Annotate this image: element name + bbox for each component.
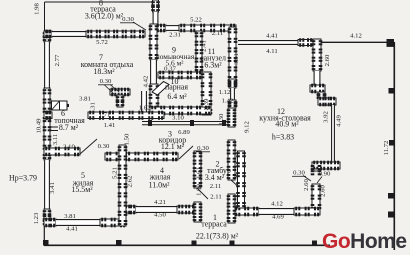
svg-text:3.92: 3.92 [323, 111, 330, 123]
svg-text:2.60: 2.60 [303, 178, 310, 190]
kitchen NE vertical wall 2.60 [312, 39, 323, 71]
pomyvochnaya west wall lower [151, 25, 160, 31]
svg-text:1.71: 1.71 [99, 112, 111, 119]
corridor north partition (thin) [142, 120, 228, 126]
rooms 5|4 divider wall [118, 145, 128, 226]
rooms 9/11 top wall left [153, 24, 167, 33]
kitchen NE step wall c [318, 97, 336, 107]
sanuzel east wall 3.51 [228, 27, 238, 82]
GoHome logo [322, 230, 407, 253]
terrace column b1 [43, 240, 49, 246]
kitchen north wall piece [298, 38, 313, 47]
svg-text:0.30: 0.30 [197, 145, 209, 152]
svg-text:1.50: 1.50 [124, 133, 131, 145]
leader 0.30 room7 [104, 85, 119, 95]
east long wall mid [227, 108, 237, 127]
svg-text:1.12: 1.12 [219, 89, 231, 96]
room 6 door swing [80, 139, 97, 154]
rooms 6|7 divider wall west piece [44, 111, 52, 120]
terrace right edge line [393, 42, 395, 250]
underline 0.30 kitchen [292, 175, 306, 177]
terrace column b3 [192, 241, 197, 246]
kitchen north window 4.41/4.11 [238, 40, 298, 45]
kitchen SW vertical wall upper [311, 165, 322, 175]
room 4 bottom wall west piece [119, 205, 136, 215]
room 7 top-left corner block [44, 30, 52, 39]
sanuzel east window [230, 88, 235, 100]
svg-text:2.10: 2.10 [63, 144, 75, 151]
svg-text:1.30: 1.30 [218, 113, 225, 125]
svg-text:8.7 м²: 8.7 м² [59, 123, 79, 132]
svg-text:1.23: 1.23 [33, 212, 40, 224]
svg-text:0.30: 0.30 [100, 78, 112, 85]
svg-text:2.60: 2.60 [324, 54, 331, 66]
svg-text:1.41: 1.41 [104, 122, 116, 129]
underline 0.30 top [120, 22, 135, 24]
svg-text:4.12: 4.12 [271, 201, 283, 208]
leader 0.90 kitchen door [317, 177, 322, 184]
svg-text:11.72: 11.72 [383, 141, 390, 156]
terrace column b4 [230, 241, 235, 246]
tambour west door swing [197, 188, 208, 199]
svg-text:4.12: 4.12 [350, 33, 362, 40]
terrace 8 corner column [153, 1, 160, 7]
kitchen south window 4.12/4.69 [259, 208, 294, 215]
room 4 bottom window 4.21/4.50 [136, 206, 177, 213]
svg-text:6.4 м²: 6.4 м² [167, 92, 187, 101]
room 5 bottom wall east piece [100, 218, 126, 228]
east long wall mid 2 [227, 140, 237, 180]
svg-text:3.6(12.0) м²: 3.6(12.0) м² [85, 11, 124, 20]
terrace corner column NE [387, 39, 395, 47]
pomyvochnaya west wall upper [151, 0, 160, 12]
corridor door swing [179, 146, 193, 159]
svg-text:4.11: 4.11 [266, 48, 277, 55]
svg-text:0.37: 0.37 [164, 65, 176, 72]
terrace column r3 [388, 193, 394, 199]
rooms 9|11 divider wall [195, 31, 204, 72]
room 7 top wall window [52, 31, 86, 37]
svg-text:2.39: 2.39 [203, 98, 210, 110]
svg-text:40.9 м²: 40.9 м² [275, 119, 299, 128]
svg-text:2.60: 2.60 [320, 184, 327, 196]
svg-text:11.0м²: 11.0м² [149, 180, 171, 189]
svg-text:терраса: терраса [201, 219, 227, 228]
parnaya north wall [158, 71, 202, 80]
svg-text:3.81: 3.81 [79, 96, 91, 103]
svg-text:1.61: 1.61 [196, 167, 203, 179]
svg-text:5.21: 5.21 [112, 167, 119, 179]
svg-text:3.51: 3.51 [233, 53, 240, 65]
room 7 right wall upper [149, 24, 159, 60]
rooms 9/11 top wall 5.22 [179, 24, 236, 33]
room 7 right wall window [150, 60, 157, 91]
kitchen SW vertical wall lower [311, 184, 322, 210]
svg-text:0.30: 0.30 [293, 170, 305, 177]
underline 0.30 corridor [196, 151, 210, 153]
terrace top-right edge line [321, 41, 394, 43]
svg-text:2.77: 2.77 [54, 54, 61, 66]
underline 0.30 room7 [98, 84, 113, 86]
rooms 6|7 divider wall east piece [88, 111, 164, 120]
kitchen west wall [236, 151, 246, 208]
svg-text:3.10: 3.10 [172, 115, 184, 122]
room 6 bottom wall [44, 147, 80, 157]
svg-text:12.1 м²: 12.1 м² [161, 142, 185, 151]
svg-text:2.41: 2.41 [201, 40, 208, 52]
rooms 9/11 top wall window [166, 25, 179, 31]
corridor south wall [105, 152, 178, 162]
leader 0.30 top [133, 22, 146, 30]
svg-text:2.11: 2.11 [210, 183, 221, 190]
svg-text:GoHome: GoHome [322, 230, 407, 250]
svg-text:10.49: 10.49 [36, 118, 43, 134]
room 4 bottom wall east piece [177, 205, 198, 215]
leader 0.30 kitchen door [303, 176, 311, 182]
room 5 bottom window 3.81 [56, 219, 100, 226]
svg-text:Нр=3.79: Нр=3.79 [9, 173, 37, 182]
kitchen south wall west piece [234, 207, 259, 217]
kitchen SE jog wall [312, 161, 340, 171]
tambour east wall lower [227, 194, 237, 223]
terrace column r1 [389, 88, 395, 94]
svg-text:0.90: 0.90 [319, 171, 331, 178]
room 5 bottom wall west piece [44, 218, 56, 228]
parnaya west wall [149, 84, 160, 117]
kitchen east window 3.92 [331, 105, 335, 162]
kitchen NE step wall b [317, 92, 327, 100]
svg-text:0.30: 0.30 [122, 16, 134, 23]
kitchen NE vertical window [314, 71, 321, 85]
room 7 right wall lower window [141, 91, 147, 114]
kitchen SW door gap [0, 0, 1, 1]
terrace column r2 [389, 140, 395, 146]
svg-text:3.81: 3.81 [64, 213, 76, 220]
left outer wall upper block [43, 31, 52, 42]
svg-text:4.49: 4.49 [336, 114, 343, 126]
svg-text:9.12: 9.12 [244, 121, 251, 133]
svg-text:1.98: 1.98 [34, 2, 41, 14]
tambour west wall lower [193, 202, 203, 222]
sauna bench in parnaya [152, 82, 169, 96]
svg-text:4.41: 4.41 [266, 33, 278, 40]
terrace column b5 [312, 241, 317, 246]
svg-text:1.62: 1.62 [139, 105, 151, 112]
sanuzel east wall block 2 [228, 100, 238, 108]
parnaya south wall [150, 106, 211, 116]
tambour west wall upper [193, 151, 203, 188]
svg-text:2.62: 2.62 [127, 176, 134, 188]
left outer wall lower block [43, 209, 52, 226]
svg-text:5.72: 5.72 [96, 39, 108, 46]
svg-text:4.42: 4.42 [143, 76, 150, 88]
svg-text:0.30: 0.30 [98, 143, 110, 150]
left outer wall middle block [43, 88, 52, 160]
svg-text:3.4 м²: 3.4 м² [205, 173, 225, 182]
parnaya east wall [201, 72, 213, 115]
svg-text:2.11: 2.11 [212, 30, 223, 37]
east wall door swing [231, 180, 242, 190]
room 7 top wall 5.72 [86, 30, 145, 39]
boiler symbol in room 6 [52, 101, 70, 110]
svg-text:3.11: 3.11 [52, 134, 59, 145]
svg-text:2.31: 2.31 [169, 32, 181, 39]
svg-text:18.3м²: 18.3м² [93, 67, 115, 76]
terrace left edge line [43, 226, 45, 245]
svg-text:1.31: 1.31 [90, 102, 97, 114]
svg-text:6.3м²: 6.3м² [204, 60, 222, 69]
pomyvochnaya west wall window [153, 12, 159, 25]
door threshold marks room 6 [51, 127, 58, 131]
left outer wall window 3.41 [44, 160, 50, 209]
svg-text:1.00: 1.00 [196, 183, 203, 195]
kitchen south wall east piece [294, 207, 320, 217]
terrace 1 bottom edge line [44, 244, 330, 246]
svg-text:4.69: 4.69 [272, 214, 284, 221]
svg-text:5.22: 5.22 [190, 17, 202, 24]
sanuzel east wall block [228, 79, 238, 88]
svg-text:4.50: 4.50 [154, 212, 166, 219]
svg-text:парная: парная [165, 82, 188, 91]
svg-text:3.41: 3.41 [49, 182, 56, 194]
left outer wall window 2.77 [44, 42, 50, 88]
svg-text:15.5м²: 15.5м² [71, 185, 93, 194]
terrace 8 outline (thin edge lines) [45, 2, 154, 31]
svg-text:22.1(73.8) м²: 22.1(73.8) м² [196, 231, 239, 240]
terrace column b2 [116, 240, 122, 246]
closet wall vertical [116, 95, 125, 107]
svg-text:4.21: 4.21 [154, 199, 166, 206]
kitchen NE step wall a [310, 84, 325, 94]
terrace column r4 [388, 212, 394, 218]
svg-text:4.41: 4.41 [66, 226, 78, 233]
corridor south wall east piece [194, 152, 201, 162]
svg-text:2.11: 2.11 [210, 194, 221, 201]
svg-text:1.42: 1.42 [222, 98, 234, 105]
closet wall horizontal [110, 88, 130, 97]
svg-text:h=3.83: h=3.83 [272, 132, 294, 141]
